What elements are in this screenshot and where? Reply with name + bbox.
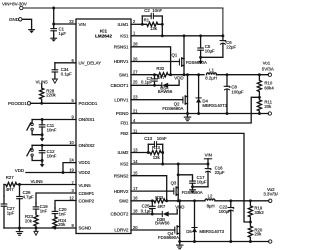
- node C12 ground: [41, 159, 44, 162]
- node FB2 divider: [249, 221, 252, 224]
- svg-text:8µH: 8µH: [207, 204, 215, 209]
- svg-text:20k: 20k: [254, 232, 262, 237]
- svg-text:PGND: PGND: [116, 111, 129, 116]
- wire VIN rail drop: [222, 8, 224, 36]
- wire SW node to L1: [171, 74, 204, 76]
- transistor Q2 FDS6690A: [187, 75, 189, 114]
- svg-text:ON/SS2: ON/SS2: [79, 143, 96, 148]
- node R13 right: [161, 151, 164, 154]
- node D5 anode ground: [193, 240, 196, 243]
- node R20 bottom: [249, 240, 252, 243]
- node C25 top: [151, 199, 154, 202]
- svg-text:RSNS1: RSNS1: [114, 45, 129, 50]
- resistor R11 20k feedback lower: [257, 97, 261, 113]
- svg-text:10nF: 10nF: [47, 128, 57, 133]
- wire R13 node to KS2 line: [162, 144, 164, 164]
- svg-text:BAW56: BAW56: [158, 89, 173, 94]
- resistor R19 33k2 feedback upper ch2: [248, 201, 252, 222]
- resistor R10 60k4 feedback upper: [257, 75, 261, 98]
- switch S2: [31, 145, 33, 149]
- svg-text:3.3V/3A: 3.3V/3A: [263, 192, 278, 197]
- svg-text:UV_DELAY: UV_DELAY: [79, 60, 102, 65]
- node Q2 source ground: [186, 112, 189, 115]
- svg-text:R1: R1: [144, 17, 150, 22]
- terminal ch1 ground return: [268, 112, 271, 115]
- svg-text:CBOOT2: CBOOT2: [110, 212, 129, 217]
- svg-text:4R7: 4R7: [6, 187, 14, 192]
- node D4 anode ground: [197, 112, 200, 115]
- svg-text:1µF: 1µF: [7, 210, 15, 215]
- svg-text:4: 4: [133, 118, 136, 123]
- svg-text:VIN: VIN: [79, 22, 86, 27]
- svg-text:23: 23: [133, 95, 138, 100]
- node C16 top: [207, 163, 210, 166]
- svg-text:ILIM2: ILIM2: [118, 150, 130, 155]
- wire C17 feed stub: [178, 175, 192, 178]
- node Q2 drain on SW: [186, 73, 189, 76]
- resistor R32 4R7: [155, 73, 171, 77]
- ground GND terminal: [31, 27, 33, 30]
- wire to VIN pin 22: [54, 23, 76, 25]
- wire VDD2 pin 19 rail: [26, 172, 76, 174]
- svg-text:Q1: Q1: [172, 53, 178, 58]
- node Q1 drain: [183, 34, 186, 37]
- capacitor C34 0.1uF: [54, 63, 56, 70]
- terminal Vo2 3.3V/3A: [269, 199, 272, 202]
- wire L1 to Vo1: [217, 74, 269, 76]
- wire C6 bottom to C5 ground: [201, 56, 223, 58]
- transistor Q3 FDS6690A: [177, 164, 179, 201]
- svg-text:5V/3A: 5V/3A: [262, 66, 274, 71]
- svg-text:SGND: SGND: [79, 226, 92, 231]
- ground earth ch2 rail: [179, 242, 181, 246]
- svg-text:C2: C2: [144, 8, 150, 13]
- capacitor C2 10nF: [141, 16, 143, 24]
- node R10 top: [258, 73, 261, 76]
- svg-text:1nF: 1nF: [59, 212, 67, 217]
- wire PGOOD1 to pin 5: [31, 102, 77, 104]
- node C22 top: [229, 199, 232, 202]
- node R27/C26: [18, 183, 21, 186]
- svg-text:16: 16: [133, 196, 138, 201]
- resistor R28 220k: [40, 84, 44, 103]
- wire VDD1 pin 24: [63, 163, 76, 173]
- svg-text:220k: 220k: [46, 93, 56, 98]
- node Q1 source on SW: [183, 73, 186, 76]
- wire ON/SS2 pin 10: [32, 144, 76, 146]
- svg-text:VLIN5: VLIN5: [36, 79, 49, 84]
- transistor Q1 FDS6690A: [183, 36, 185, 75]
- wire VLIN5 pin 7: [19, 184, 77, 186]
- svg-text:VIN+8V-30V: VIN+8V-30V: [2, 2, 27, 7]
- svg-text:20k: 20k: [58, 222, 66, 227]
- svg-text:D5: D5: [186, 229, 192, 234]
- svg-text:SW1: SW1: [119, 72, 129, 77]
- svg-text:8.2µH: 8.2µH: [205, 76, 217, 81]
- svg-text:4R7: 4R7: [157, 204, 165, 209]
- ground open-arrow bottom-left: [35, 228, 37, 231]
- svg-text:10nF: 10nF: [157, 136, 167, 141]
- capacitor C7 0.1uF bootstrap: [154, 75, 156, 79]
- node Q4 source ground: [178, 240, 181, 243]
- wire SW2 pin 16: [131, 200, 153, 202]
- capacitor C19 1nF: [35, 203, 37, 207]
- wire C16 bottom to C17 ground: [193, 186, 209, 188]
- svg-text:20k: 20k: [264, 104, 272, 109]
- wire FB1 pin 4: [131, 97, 259, 123]
- svg-text:0.1µF: 0.1µF: [141, 208, 152, 213]
- node R11 bottom: [258, 112, 261, 115]
- resistor R1 13k: [142, 22, 162, 26]
- svg-text:22: 22: [69, 19, 74, 24]
- svg-text:11: 11: [133, 128, 138, 133]
- svg-text:FDS6690A: FDS6690A: [158, 235, 179, 240]
- resistor R27 4R7: [4, 182, 19, 186]
- switch S1: [31, 120, 33, 124]
- capacitor C17 10uF: [192, 178, 194, 182]
- node C11 ground: [41, 133, 44, 136]
- node C22 bottom: [229, 240, 232, 243]
- svg-text:FDS6690A: FDS6690A: [186, 60, 207, 65]
- svg-text:Q3: Q3: [171, 181, 177, 186]
- svg-text:R27: R27: [6, 175, 14, 180]
- wire GND stub: [22, 19, 32, 26]
- svg-text:ILIM1: ILIM1: [118, 22, 130, 27]
- diode D4 MBRS140T3: [198, 75, 200, 114]
- svg-text:VDD2: VDD2: [79, 170, 91, 175]
- node C5 ground: [199, 56, 202, 59]
- node C8 top: [226, 73, 229, 76]
- svg-text:10µF: 10µF: [205, 49, 215, 54]
- svg-text:13: 13: [133, 147, 138, 152]
- svg-text:20: 20: [133, 225, 138, 230]
- svg-text:LDRV1: LDRV1: [114, 97, 129, 102]
- terminal Vo1 5V/3A: [268, 73, 271, 76]
- svg-text:VLIN5: VLIN5: [31, 179, 44, 184]
- node C25 bottom: [151, 213, 154, 216]
- node VIN pin tap: [52, 23, 55, 26]
- wire SGND rail pin 8: [4, 227, 76, 229]
- node Q3 source on SW2: [177, 199, 180, 202]
- svg-text:C13: C13: [144, 136, 152, 141]
- ground below C1: [53, 35, 55, 38]
- svg-text:12: 12: [69, 195, 74, 200]
- svg-text:33k2: 33k2: [254, 210, 264, 215]
- node RSNS2/SW2: [165, 199, 168, 202]
- node R24 ground: [54, 227, 57, 230]
- ground below C16/C17: [192, 187, 194, 190]
- ground below C5/C6: [200, 57, 202, 61]
- svg-text:COMP2: COMP2: [79, 198, 95, 203]
- svg-text:R13: R13: [152, 145, 160, 150]
- svg-text:22µF: 22µF: [226, 44, 236, 49]
- svg-text:R33: R33: [155, 195, 163, 200]
- svg-text:GND: GND: [9, 17, 20, 22]
- node C7 top: [153, 73, 156, 76]
- svg-text:MBRS140T3: MBRS140T3: [202, 103, 227, 108]
- svg-text:VLIN5: VLIN5: [79, 183, 92, 188]
- node VDD rail junction: [62, 171, 65, 174]
- svg-text:SW2: SW2: [119, 199, 129, 204]
- capacitor C20 1nF: [54, 208, 56, 211]
- svg-text:10nF: 10nF: [47, 153, 57, 158]
- svg-text:13k: 13k: [153, 155, 161, 160]
- wire ON/SS1 pin 9: [32, 119, 76, 121]
- resistor R24 20k: [53, 217, 57, 228]
- svg-text:FB1: FB1: [120, 121, 129, 126]
- node C19/R23 ground: [35, 227, 38, 230]
- svg-text:22µF: 22µF: [215, 170, 225, 175]
- wire SW1 pin 27: [131, 74, 155, 76]
- wire FB2 pin 11: [131, 133, 250, 222]
- svg-text:24: 24: [69, 158, 74, 163]
- capacitor C26 4.7uF: [19, 185, 21, 197]
- svg-text:2: 2: [133, 19, 136, 24]
- wire RSNS1 pin 28: [131, 47, 171, 75]
- wire KS1 pin 1 / VIN feed: [131, 35, 223, 37]
- capacitor C11 10nF: [41, 120, 43, 125]
- svg-text:CBOOT1: CBOOT1: [110, 83, 129, 88]
- ground earth ch1 rail: [187, 114, 189, 118]
- svg-text:20k: 20k: [25, 218, 33, 223]
- svg-text:10nF: 10nF: [152, 8, 162, 13]
- inductor L2 8uH: [205, 199, 215, 201]
- svg-text:MBRS140T3: MBRS140T3: [199, 229, 224, 234]
- terminal ch2 ground return: [269, 240, 272, 243]
- svg-text:LDRV2: LDRV2: [114, 228, 129, 233]
- svg-text:1nF: 1nF: [40, 208, 48, 213]
- wire power ground rail ch2: [180, 241, 269, 243]
- svg-text:19: 19: [69, 167, 74, 172]
- resistor R13 13k: [148, 150, 162, 154]
- resistor R20 20k feedback lower ch2: [248, 222, 252, 242]
- resistor R23 20k: [34, 213, 38, 228]
- wire L2 to Vo2: [215, 200, 269, 202]
- svg-text:10µF: 10µF: [197, 180, 207, 185]
- svg-text:5: 5: [72, 98, 75, 103]
- wire D3B to VDD: [169, 209, 178, 214]
- wire PGND pin 21 / power ground rail ch1: [131, 113, 268, 115]
- svg-text:8: 8: [72, 223, 75, 228]
- diode D3A BAW56: [161, 83, 163, 88]
- transistor Q4 FDS6690A: [179, 201, 181, 242]
- capacitor C13 10nF: [147, 144, 149, 152]
- svg-text:18: 18: [133, 208, 138, 213]
- svg-text:13k: 13k: [150, 26, 158, 31]
- capacitor C8 100uF output: [226, 75, 228, 87]
- svg-text:FDS6690A: FDS6690A: [162, 106, 183, 111]
- capacitor C5 10uF: [200, 36, 202, 48]
- svg-text:0.1µF: 0.1µF: [61, 71, 72, 76]
- capacitor C25 0.1uF bootstrap ch2: [151, 201, 153, 207]
- svg-text:KS1: KS1: [120, 34, 129, 39]
- wire CBOOT2 pin 18: [131, 213, 162, 215]
- capacitor C22 100uF output ch2: [230, 201, 232, 208]
- svg-text:FB2: FB2: [120, 131, 129, 136]
- svg-text:15: 15: [133, 171, 138, 176]
- svg-text:COMP1: COMP1: [79, 191, 95, 196]
- svg-text:28: 28: [133, 42, 138, 47]
- svg-text:HDRV2: HDRV2: [114, 189, 129, 194]
- node C6/KS1/rail junction: [221, 34, 224, 37]
- svg-text:0.1µF: 0.1µF: [141, 80, 152, 85]
- node Q3 drain riser: [177, 163, 180, 166]
- svg-text:PGOOD1: PGOOD1: [79, 101, 98, 106]
- wire VIN rail: [23, 7, 223, 9]
- svg-text:9: 9: [72, 114, 75, 119]
- node PGOOD1/R28: [40, 102, 43, 105]
- wire R1 node to KS1 line: [161, 16, 163, 36]
- svg-text:KS2: KS2: [120, 162, 129, 167]
- wire SW2 node to L2: [167, 200, 205, 202]
- svg-text:17: 17: [133, 186, 138, 191]
- wire ILIM1 pin 2: [131, 23, 142, 25]
- node C7 bottom: [153, 84, 156, 87]
- svg-text:6: 6: [72, 58, 75, 63]
- capacitor C27 1uF: [3, 196, 5, 204]
- svg-text:+: +: [232, 206, 235, 211]
- inductor L1 8.2uH: [207, 73, 217, 75]
- svg-text:Vo1: Vo1: [263, 60, 271, 65]
- ground below C11: [41, 135, 43, 139]
- node C17 ground: [191, 185, 194, 188]
- svg-text:27: 27: [133, 70, 138, 75]
- svg-text:4R7: 4R7: [157, 75, 165, 80]
- svg-text:10: 10: [69, 140, 74, 145]
- capacitor C16 22uF: [207, 164, 209, 169]
- svg-text:1µF: 1µF: [59, 31, 67, 36]
- svg-text:RSNS2: RSNS2: [114, 173, 129, 178]
- svg-text:L1: L1: [209, 67, 214, 72]
- wire UV_DELAY pin 6: [55, 62, 76, 64]
- wire RSNS2 pin 15: [131, 176, 167, 201]
- svg-text:14: 14: [133, 159, 138, 164]
- wire COMP2 pin 12: [55, 201, 76, 209]
- ground earth bottom-left: [19, 228, 21, 232]
- svg-text:4.7µF: 4.7µF: [23, 194, 34, 199]
- node C8 bottom: [226, 112, 229, 115]
- svg-text:21: 21: [133, 108, 138, 113]
- capacitor C6 22uF: [222, 36, 224, 41]
- svg-text:HDRV1: HDRV1: [114, 59, 129, 64]
- svg-text:VDD1: VDD1: [79, 160, 91, 165]
- svg-text:VIN: VIN: [205, 152, 212, 157]
- node RSNS1/SW1: [169, 73, 172, 76]
- svg-text:+: +: [210, 167, 213, 172]
- node R1/C2 right: [161, 23, 164, 26]
- svg-text:3: 3: [72, 188, 75, 193]
- svg-text:60k4: 60k4: [264, 85, 274, 90]
- svg-text:BAW56: BAW56: [155, 220, 170, 225]
- svg-text:100µF: 100µF: [231, 89, 244, 94]
- svg-text:25: 25: [133, 80, 138, 85]
- svg-text:PGOOD1: PGOOD1: [8, 101, 27, 106]
- svg-text:L2: L2: [208, 194, 213, 199]
- node R19 top: [249, 199, 252, 202]
- wire ILIM2 pin 13: [131, 152, 148, 154]
- node Q4 drain on SW2: [178, 199, 181, 202]
- diode D5 MBRS140T3: [194, 201, 196, 242]
- wire D3A to VDD: [168, 81, 179, 86]
- capacitor C12 10nF: [41, 145, 43, 150]
- svg-text:LM2642: LM2642: [95, 34, 112, 39]
- wire down to C27: [3, 185, 5, 197]
- svg-text:VDD: VDD: [15, 168, 24, 173]
- svg-text:1: 1: [133, 31, 136, 36]
- wire KS2 pin 14 / VIN feed ch2: [131, 163, 208, 165]
- wire CBOOT1 pin 25: [131, 84, 162, 86]
- op-amp U1 (IC1 LM2642 controller box): [76, 19, 131, 234]
- capacitor C1 1uF: [53, 8, 55, 29]
- node C5 top: [199, 34, 202, 37]
- svg-text:26: 26: [133, 56, 138, 61]
- node VIN/C1 junction: [52, 7, 55, 10]
- node FB1 divider: [258, 96, 261, 99]
- wire COMP1 pin 3: [36, 193, 76, 203]
- svg-text:VDD: VDD: [174, 76, 183, 81]
- resistor R33 4R7: [152, 199, 166, 203]
- diode D3B BAW56: [161, 211, 163, 216]
- svg-text:100µF: 100µF: [219, 209, 232, 214]
- ground below C34: [52, 79, 57, 83]
- svg-text:R32: R32: [156, 66, 164, 71]
- svg-text:ON/SS1: ON/SS1: [79, 117, 96, 122]
- ground below C12: [41, 161, 43, 165]
